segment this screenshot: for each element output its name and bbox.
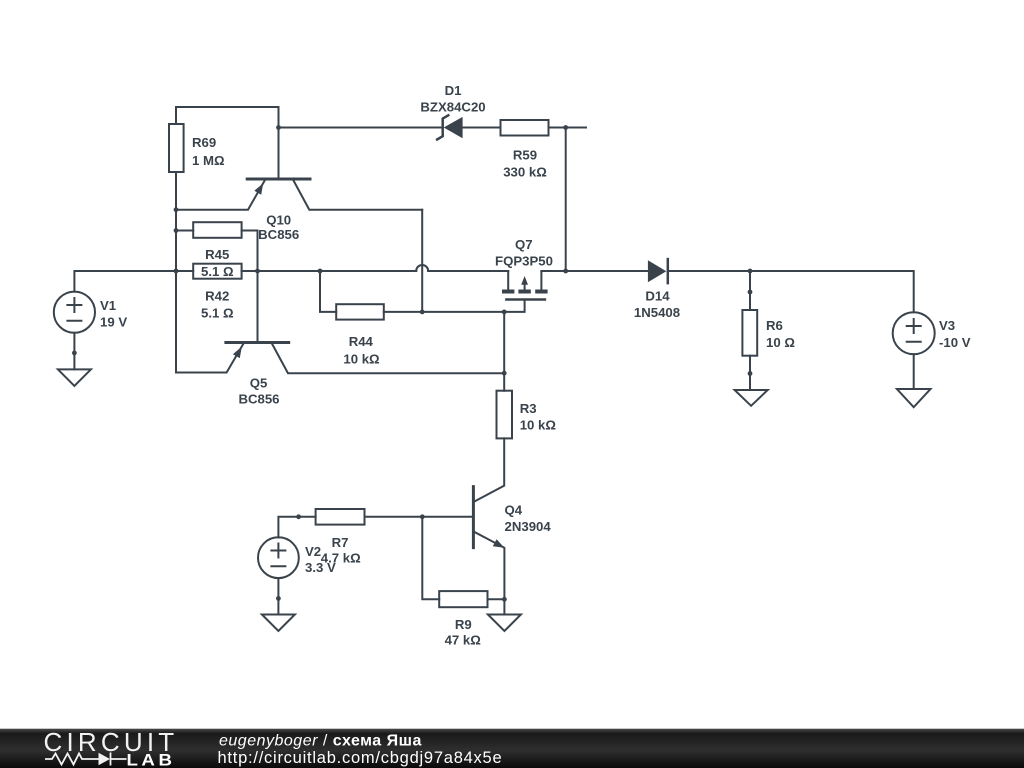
ground below Q4 <box>488 615 521 632</box>
transistor Q4 emitter arrow <box>493 539 505 548</box>
voltage source V1 minus <box>67 320 81 322</box>
resistor R3 <box>497 391 513 439</box>
voltage source V3 minus <box>907 341 921 343</box>
wire R9 right to Q4 emitter <box>488 598 505 600</box>
resistor R6 <box>742 310 757 356</box>
svg-text:D1: D1 <box>445 83 462 98</box>
transistor Q10 emitter wire <box>176 181 265 210</box>
transistor Q5 emitter wire <box>176 344 243 373</box>
voltage source V1 circle <box>54 292 95 333</box>
wire drain rail Q7 to D14 <box>541 270 648 272</box>
transistor Q5 collector wire <box>272 344 504 373</box>
mosfet Q7 source stub <box>507 271 509 290</box>
node dot main rail x320 R44 tap <box>318 269 323 274</box>
logo diode triangle <box>99 753 111 765</box>
wire D14 to V3 corner <box>668 271 914 312</box>
ground below V1 <box>58 369 91 386</box>
wire V3 bottom <box>913 354 915 389</box>
mosfet Q7 body arrow <box>524 283 526 290</box>
wire R3 bottom to Q4 collector <box>473 438 504 502</box>
diode D14 cathode bar <box>667 259 670 283</box>
node dot drain rail x565.7 <box>563 269 568 274</box>
node dot main rail x257.5 <box>255 269 260 274</box>
wire R7 junction down to R9 <box>422 517 439 600</box>
node dot R7 left terminal <box>296 514 301 519</box>
wire Q4 base to R7 <box>365 516 472 518</box>
svg-text:3.3 V: 3.3 V <box>305 560 336 575</box>
node dot Q10 base top <box>276 125 281 130</box>
node dot R45 left junction <box>174 228 179 233</box>
wire hop over collector vertical <box>416 265 428 271</box>
svg-text:R44: R44 <box>349 334 374 349</box>
transistor Q4 base bar <box>472 487 475 548</box>
svg-text:R42: R42 <box>205 289 229 304</box>
svg-text:R59: R59 <box>513 148 537 163</box>
node dot V1 bottom <box>72 351 77 356</box>
wire gate rail R44 to Q7 gate <box>384 301 525 312</box>
resistor R44 <box>336 304 384 319</box>
wire vertical R59 node down to drain rail <box>565 128 567 272</box>
transistor Q10 base stem <box>278 128 280 178</box>
svg-text:5.1 Ω: 5.1 Ω <box>201 306 234 321</box>
wire R45 left <box>176 230 193 232</box>
logo resistor zigzag <box>45 754 99 765</box>
voltage source V2 plus <box>271 544 285 558</box>
transistor Q5 emitter arrow <box>233 347 242 359</box>
svg-text:Q4: Q4 <box>505 503 523 518</box>
wire V2 top to R7 <box>278 517 315 538</box>
svg-text:10 kΩ: 10 kΩ <box>343 352 380 367</box>
wire R6 top <box>749 271 751 310</box>
ground below V2 <box>262 615 295 632</box>
node dot rail x750 R6 tap <box>748 269 753 274</box>
resistor R45 <box>193 222 241 238</box>
wire R69 bottom to emitter junction <box>175 172 177 373</box>
transistor Q4 emitter wire <box>473 531 504 599</box>
node dot gate rail x422 <box>420 310 425 315</box>
svg-text:V1: V1 <box>100 298 116 313</box>
svg-text:LAB: LAB <box>127 750 176 768</box>
wire Q4 emitter to ground <box>503 599 505 614</box>
wire R6 bottom <box>749 356 751 390</box>
diode D1 zener cathode bar <box>437 115 448 139</box>
svg-text:http://circuitlab.com/cbgdj97a: http://circuitlab.com/cbgdj97a84x5e <box>218 749 503 767</box>
svg-text:V3: V3 <box>939 318 955 333</box>
svg-text:19 V: 19 V <box>100 314 127 329</box>
svg-text:FQP3P50: FQP3P50 <box>495 254 553 269</box>
resistor R42 <box>193 264 241 279</box>
svg-text:R3: R3 <box>520 401 537 416</box>
transistor Q10 emitter arrow <box>254 183 263 195</box>
voltage source V3 plus <box>907 319 921 333</box>
diode D14 triangle <box>648 260 666 282</box>
wire main rail from V1 corner to R42 <box>74 271 193 292</box>
svg-text:1N5408: 1N5408 <box>634 305 680 320</box>
logo diode wire <box>111 753 127 766</box>
ground below R6 <box>735 390 768 406</box>
ground below V3 <box>897 389 931 407</box>
resistor R7 <box>316 509 365 525</box>
svg-text:R7: R7 <box>332 535 349 550</box>
svg-text:R9: R9 <box>455 617 472 632</box>
resistor R9 <box>439 591 487 607</box>
svg-text:1 MΩ: 1 MΩ <box>192 153 225 168</box>
wire D1 to R59 <box>463 127 501 129</box>
transistor Q5 BC856 base bar <box>226 341 289 344</box>
svg-text:BC856: BC856 <box>258 227 299 242</box>
mosfet Q7 gate bar <box>506 298 545 301</box>
voltage source V2 minus <box>271 565 285 567</box>
mosfet Q7 channel bars <box>502 290 548 294</box>
svg-text:BZX84C20: BZX84C20 <box>420 100 485 115</box>
svg-text:eugenyboger / схема Яша: eugenyboger / схема Яша <box>219 733 422 750</box>
wire V1 bottom <box>73 333 75 370</box>
node dot R9 right junction <box>502 597 507 602</box>
svg-text:2N3904: 2N3904 <box>505 519 552 534</box>
node dot gate rail x504 <box>502 310 507 315</box>
svg-text:330 kΩ: 330 kΩ <box>503 165 547 180</box>
wire main rail R42 to hop <box>242 270 417 272</box>
wire Q10 collector vertical down to gate rail <box>421 210 423 312</box>
transistor Q10 BC856 base bar <box>247 178 310 181</box>
svg-text:D14: D14 <box>645 289 670 304</box>
node dot R6 top terminal <box>748 290 753 295</box>
svg-text:BC856: BC856 <box>238 392 279 407</box>
mosfet Q7 drain stub <box>540 271 542 290</box>
svg-text:R45: R45 <box>205 247 229 262</box>
svg-text:10 Ω: 10 Ω <box>766 335 795 350</box>
node dot main rail x176 <box>174 269 179 274</box>
node dot base wire x422 <box>420 514 425 519</box>
wire main rail hop to Q7 source <box>428 270 508 272</box>
svg-text:V2: V2 <box>305 544 321 559</box>
resistor R59 <box>501 120 549 136</box>
wire V2 bottom <box>277 578 279 614</box>
wire R45 right down to Q5 base <box>242 231 258 341</box>
wire R59 right stub <box>549 127 587 129</box>
node dot R69/emitter junction <box>174 207 179 212</box>
svg-text:5.1 Ω: 5.1 Ω <box>201 264 234 279</box>
svg-text:Q5: Q5 <box>250 376 268 391</box>
svg-text:R69: R69 <box>192 135 216 150</box>
voltage source V1 plus <box>67 298 81 312</box>
node dot V2 bottom <box>276 596 281 601</box>
node dot D1/R59 junction <box>563 125 568 130</box>
resistor R69 <box>169 124 184 172</box>
voltage source V2 circle <box>258 537 299 578</box>
wire top loop from R69 top to Q10 base node <box>176 107 279 128</box>
node dot R6 bottom <box>748 371 753 376</box>
svg-text:47 kΩ: 47 kΩ <box>445 633 482 648</box>
svg-text:10 kΩ: 10 kΩ <box>520 418 557 433</box>
wire D1 rail left <box>279 127 443 129</box>
wire R3 top chain <box>503 312 505 391</box>
svg-text:R6: R6 <box>766 318 783 333</box>
svg-text:-10 V: -10 V <box>939 335 971 350</box>
wire R44 tap down <box>320 271 336 312</box>
transistor Q10 collector wire <box>294 181 423 210</box>
voltage source V3 circle <box>893 312 935 354</box>
node dot Q5 collector/R3 junction <box>502 371 507 376</box>
diode D1 triangle <box>444 117 463 138</box>
svg-text:Q7: Q7 <box>515 237 533 252</box>
svg-text:Q10: Q10 <box>266 213 291 228</box>
